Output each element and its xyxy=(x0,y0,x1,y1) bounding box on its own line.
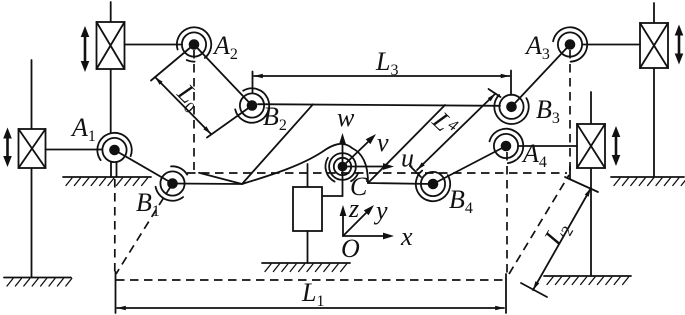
svg-text:A3: A3 xyxy=(524,31,550,63)
link A1-B1 xyxy=(115,150,173,184)
label y xyxy=(373,196,388,225)
platform front edge from B1 xyxy=(173,183,243,186)
dashed diagonal B1 to base corner xyxy=(116,186,171,274)
rod from joint A4 to box P4 xyxy=(518,145,577,147)
label B4 xyxy=(449,185,473,217)
prismatic actuator box P1 xyxy=(97,22,125,69)
label L0 xyxy=(169,78,208,117)
joint B3 xyxy=(494,95,528,124)
label A1 xyxy=(70,113,96,145)
svg-text:O: O xyxy=(341,234,360,263)
dimension L2 line xyxy=(521,166,598,297)
svg-text:A4: A4 xyxy=(521,139,547,171)
svg-text:B3: B3 xyxy=(536,95,560,127)
rod from joint A3 to box P3 xyxy=(583,44,640,46)
stem from C to center post xyxy=(322,167,343,197)
pedestal under A1 xyxy=(111,162,117,177)
joint B1 xyxy=(156,166,188,200)
center post stem xyxy=(307,231,309,263)
dashed center line xyxy=(187,172,567,174)
link A2-B2 xyxy=(194,45,252,106)
svg-text:A2: A2 xyxy=(212,31,238,63)
platform S-curve edge over C xyxy=(242,144,368,184)
slide arrow 3 xyxy=(675,25,684,65)
svg-text:L0: L0 xyxy=(169,78,208,117)
joint A4 xyxy=(490,129,524,163)
dimension L0 line xyxy=(151,45,252,138)
dimension L3 line xyxy=(253,71,512,96)
label L1 xyxy=(301,278,324,310)
label A3 xyxy=(524,31,550,63)
label w xyxy=(337,103,355,132)
dimension L1 line xyxy=(116,272,507,313)
joint A1 xyxy=(97,133,131,162)
label L3 xyxy=(375,47,398,79)
stub above center post xyxy=(307,164,309,187)
label L4 xyxy=(426,106,457,138)
label v xyxy=(377,128,389,157)
label A4 xyxy=(521,139,547,171)
dashed diagonal base corner to rail 4 xyxy=(509,175,569,274)
joint B4 xyxy=(416,171,450,202)
moving frame axis u xyxy=(343,163,395,170)
platform middle diagonal edge xyxy=(368,105,445,183)
svg-text:x: x xyxy=(400,222,413,251)
platform left diagonal edge xyxy=(242,104,313,184)
dashed base bottom line xyxy=(116,279,503,281)
dashed drop below A1 xyxy=(114,179,116,276)
dashed drop below A2 xyxy=(193,50,195,170)
slide arrow 4 xyxy=(612,126,621,166)
ground bottom-right xyxy=(544,276,631,285)
svg-text:L1: L1 xyxy=(301,278,324,310)
center post block xyxy=(293,187,322,231)
rail of actuator 2 (left) xyxy=(31,60,33,277)
svg-text:A1: A1 xyxy=(70,113,96,145)
dimension L4 line xyxy=(410,89,501,177)
svg-text:u: u xyxy=(401,144,414,173)
label x xyxy=(400,222,413,251)
link A3-B3 xyxy=(512,45,571,107)
fixed frame axis x xyxy=(343,233,394,240)
label B3 xyxy=(536,95,560,127)
dashed drop below A3 xyxy=(569,50,571,172)
joint A3 xyxy=(553,27,587,61)
prismatic actuator box P4 xyxy=(577,124,605,168)
fixed frame axis y xyxy=(343,205,374,236)
svg-text:z: z xyxy=(348,194,359,223)
platform top edge B2-B3 xyxy=(258,104,500,106)
platform front edge to B4 xyxy=(368,183,433,184)
svg-text:B1: B1 xyxy=(136,188,160,220)
platform back-left stub xyxy=(199,173,242,184)
svg-text:L3: L3 xyxy=(375,47,398,79)
joint A2 xyxy=(177,27,211,61)
rail of actuator 1 (top-left) xyxy=(110,2,112,133)
rail of actuator 4 (right) xyxy=(590,92,592,276)
joint C (center) xyxy=(325,153,358,182)
slide arrow 1 xyxy=(81,26,90,72)
prismatic actuator box P2 xyxy=(19,129,46,168)
label C xyxy=(350,172,368,201)
prismatic actuator box P3 xyxy=(640,23,668,68)
svg-text:v: v xyxy=(377,128,389,157)
label A2 xyxy=(212,31,238,63)
ground under A1 xyxy=(63,177,151,186)
svg-text:B4: B4 xyxy=(449,185,473,217)
moving frame axis w xyxy=(339,133,346,163)
svg-text:w: w xyxy=(337,103,355,132)
link A4-B4 xyxy=(433,146,506,184)
dashed drop below A4 xyxy=(506,152,508,274)
label L2 xyxy=(538,216,577,252)
slide arrow 2 xyxy=(3,128,12,168)
ground bottom-left xyxy=(4,278,72,287)
svg-text:B2: B2 xyxy=(263,102,287,134)
label u xyxy=(401,144,414,173)
label B2 xyxy=(263,102,287,134)
label B1 xyxy=(136,188,160,220)
ground center support xyxy=(262,263,350,272)
rod from box P2 to joint A1 xyxy=(46,149,103,151)
rod from box P1 to joint A2 xyxy=(125,44,183,46)
svg-text:y: y xyxy=(373,196,388,225)
ground upper-right xyxy=(611,177,685,186)
rail of actuator 3 (top-right) xyxy=(653,3,655,177)
joint B2 xyxy=(235,88,269,122)
fixed frame axis z xyxy=(340,205,347,236)
label O xyxy=(341,234,360,263)
moving frame axis v xyxy=(343,134,377,167)
label z xyxy=(348,194,359,223)
